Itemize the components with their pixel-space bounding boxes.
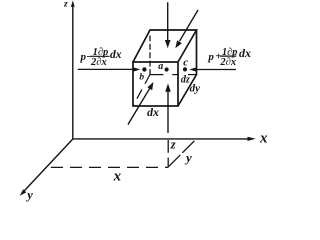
svg-text:2∂x: 2∂x [90,57,107,68]
svg-text:z: z [63,0,68,10]
svg-text:p: p [207,51,214,63]
svg-text:dz: dz [181,75,190,86]
svg-text:c: c [183,57,188,69]
svg-text:dy: dy [190,83,201,95]
svg-text:2∂x: 2∂x [219,57,236,68]
svg-text:x: x [113,169,122,185]
svg-text:b: b [139,73,144,83]
svg-text:z: z [170,138,176,152]
svg-text:p: p [80,51,87,63]
svg-text:x: x [259,130,268,146]
svg-text:dx: dx [147,105,159,119]
svg-text:dx: dx [239,46,251,60]
svg-text:a: a [158,61,163,72]
svg-text:y: y [184,150,192,165]
svg-text:dx: dx [110,49,122,61]
svg-text:y: y [25,188,33,202]
